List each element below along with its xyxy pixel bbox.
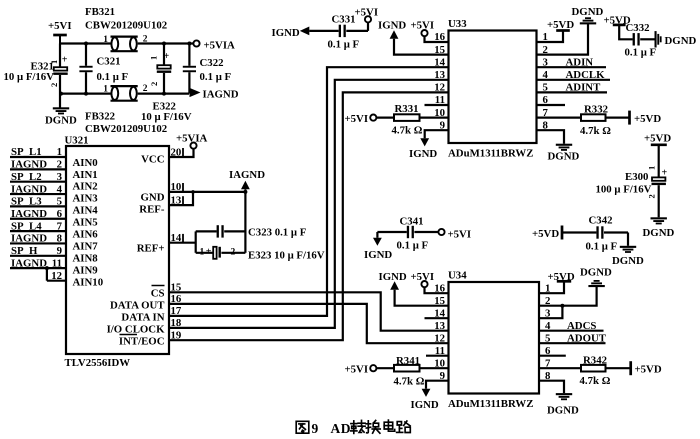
wire C321 leads [85,44,87,94]
svg-text:IGND: IGND [411,399,439,411]
pin 15 CS wire: U321.15 to U34.13 [169,282,449,331]
svg-text:CBW201209U102: CBW201209U102 [85,123,167,135]
ferrite bead FB322 [85,84,167,135]
svg-text:REF+: REF+ [137,243,165,255]
svg-text:AIN2: AIN2 [73,181,98,193]
node SP_H pin 9 of U321 [10,245,66,257]
op IC U34 ADuM1311BRWZ box [448,270,539,411]
svg-text:AD: AD [331,421,352,436]
power +5VD at U33 pin 1 [537,19,575,42]
node ADOUT U34 pin 5 [539,332,607,344]
svg-text:+5VI: +5VI [345,364,369,376]
node IAGND pin 11 of U321 [10,257,66,269]
svg-text:CS: CS [151,288,165,300]
svg-text:ADINT: ADINT [566,82,602,94]
svg-text:+5VD: +5VD [634,113,661,125]
wire top rail [60,42,194,44]
pin label CS (active low) of U321 [151,286,165,300]
svg-text:DGND: DGND [612,255,644,267]
pin label REF+ of U321 [137,243,165,255]
svg-text:IAGND: IAGND [11,159,47,171]
pin label DATA IN of U321 [121,312,164,324]
svg-text:DGND: DGND [643,227,675,239]
node IAGND pin 6 of U321 [10,208,66,220]
pin label DATA OUT of U321 [110,300,165,312]
resistor R332 4.7k [537,103,662,137]
net IGND arrow at U34 pin 9 [411,381,449,411]
svg-text:12: 12 [434,82,445,94]
node ADIN U33 pin 3 [537,56,607,68]
svg-text:FB322: FB322 [85,111,115,123]
node pin 12 of U321 [47,270,66,282]
svg-text:IAGND: IAGND [203,89,239,101]
op IC U33 ADuM1311BRWZ box [448,18,537,160]
svg-text:0.1 μ F: 0.1 μ F [397,240,429,252]
ground DGND bottom-left [45,94,77,127]
svg-text:IAGND: IAGND [11,183,47,195]
svg-text:0.1 μ F: 0.1 μ F [200,71,232,83]
svg-text:1: 1 [200,248,205,258]
svg-text:IAGND: IAGND [11,257,47,269]
pin numbers right side U34 [545,282,551,382]
pin label GND of U321 [141,192,165,204]
svg-text:+: + [206,247,212,258]
svg-text:+5VD: +5VD [547,19,574,31]
svg-text:9: 9 [312,421,319,436]
svg-text:VCC: VCC [141,154,164,166]
capacitor E321 (electrolytic 10uF/16V) [4,55,68,88]
svg-text:4: 4 [57,183,63,195]
svg-text:U33: U33 [448,18,467,30]
svg-text:4.7k Ω: 4.7k Ω [580,375,611,387]
svg-text:C331: C331 [332,14,356,26]
capacitor C331 0.1uF with IGND arrow and +5VI terminal [272,7,379,51]
op IC U321 TLV2556IDW box [65,135,170,370]
svg-text:11: 11 [52,257,62,269]
ground DGND above U33 pin 2 [537,6,604,55]
svg-text:IGND: IGND [409,148,437,160]
svg-text:+5VI: +5VI [448,229,472,241]
svg-text:2: 2 [143,84,148,94]
svg-text:2: 2 [149,82,159,86]
caption figure label 图9 AD转换电路 [296,420,410,436]
net IGND arrow at U33 pin 15 [378,20,449,55]
svg-text:IGND: IGND [272,27,300,39]
svg-text:C341: C341 [400,216,424,228]
svg-text:ADCLK: ADCLK [566,69,606,81]
pin 6 stub U33 [537,104,566,106]
pin 14 wire of U321 [169,231,196,252]
svg-text:ADCS: ADCS [567,320,596,332]
svg-text:GND: GND [141,192,165,204]
capacitor E323 10uF/16V electrolytic [196,247,325,262]
power symbol +5VI top-left [48,20,72,44]
wire E322 leads [163,44,165,94]
svg-text:7: 7 [57,220,63,232]
svg-text:1: 1 [149,56,159,60]
net IGND arrow at U34 pin 15 [379,271,449,306]
svg-text:AIN1: AIN1 [73,169,98,181]
capacitor C323 0.1uF [196,225,307,238]
svg-text:2: 2 [49,83,59,87]
svg-text:+5VD: +5VD [548,271,575,283]
svg-text:10 μ F/16V: 10 μ F/16V [141,111,192,123]
svg-text:DGND: DGND [580,267,612,279]
svg-text:2: 2 [143,35,148,45]
svg-text:REF-: REF- [139,204,165,216]
node junction IAGND pin11 to pin12 [45,266,49,281]
pin 19 INT/EOC wire: U321.19 to U33.12 [169,92,449,341]
ground DGND below U33 pin 8 [537,130,580,162]
svg-text:IGND: IGND [364,249,392,261]
node IAGND pin 4 of U321 [10,183,66,195]
svg-text:AIN4: AIN4 [73,205,99,217]
node junction dots bottom rail [59,92,166,96]
svg-text:12: 12 [434,332,445,344]
capacitor C332 0.1uF with +5VD and rotated DGND [604,15,697,59]
svg-text:AIN10: AIN10 [73,276,104,288]
svg-text:CBW201209U102: CBW201209U102 [85,20,167,32]
svg-text:SP_L1: SP_L1 [11,146,42,158]
node ADCS U34 pin 4 [539,320,604,332]
pin label VCC of U321 [141,154,164,166]
svg-text:+5VI: +5VI [411,20,435,32]
pin 16 DATA OUT wire: U321.16 to U34.12 [169,293,449,343]
svg-text:3: 3 [57,171,63,183]
svg-text:U321: U321 [65,135,89,147]
svg-text:0.1 μ F: 0.1 μ F [328,39,360,51]
svg-text:+5VD: +5VD [635,364,662,376]
svg-text:DGND: DGND [548,151,580,163]
svg-text:100 μ F/16V: 100 μ F/16V [596,184,652,196]
svg-text:13: 13 [434,69,445,81]
svg-text:DGND: DGND [45,115,77,127]
svg-text:4.7k Ω: 4.7k Ω [392,125,423,137]
terminal +5VI at U34 pin 16 [411,271,449,293]
capacitor C321 0.1uF [79,56,128,83]
terminal +5VIA [193,40,235,52]
svg-text:5: 5 [57,196,62,208]
svg-text:AIN3: AIN3 [73,193,99,205]
svg-text:DGND: DGND [665,35,697,47]
svg-text:I/O CLOCK: I/O CLOCK [107,324,165,336]
svg-text:ADOUT: ADOUT [567,332,607,344]
svg-text:AIN7: AIN7 [73,240,99,252]
svg-text:0.1 μ F: 0.1 μ F [586,241,618,253]
pin label REF- of U321 [139,204,165,216]
svg-text:IGND: IGND [378,20,406,32]
svg-text:ADIN: ADIN [566,56,594,68]
svg-text:+: + [62,55,68,66]
svg-text:DATA IN: DATA IN [121,312,164,324]
svg-text:ADuM1311BRWZ: ADuM1311BRWZ [448,148,533,160]
svg-text:DGND: DGND [547,405,579,417]
wire REF decoupling vertical [244,192,246,253]
svg-text:C323 0.1 μ F: C323 0.1 μ F [248,227,307,239]
svg-text:1: 1 [103,35,108,45]
capacitor C341 0.1uF with IGND arrow and +5VI terminal [364,216,471,262]
svg-text:0.1 μ F: 0.1 μ F [625,47,657,59]
svg-text:U34: U34 [448,270,467,282]
svg-text:+5VI: +5VI [355,7,379,19]
svg-text:+5VD: +5VD [644,133,671,145]
svg-text:+: + [662,168,668,179]
svg-text:4.7k Ω: 4.7k Ω [394,376,425,388]
svg-text:AIN6: AIN6 [73,229,99,241]
svg-text:AIN0: AIN0 [73,157,98,169]
node SP_L1 pin 1 of U321 [10,146,66,158]
pin 6 stub U34 [539,355,566,357]
ferrite bead FB321 [85,6,167,51]
terminal +5VIA at pin 20 [176,133,208,149]
svg-text:C332: C332 [626,22,650,34]
node SP_L4 pin 7 of U321 [10,220,66,232]
pin label INT/EOC of U321 [119,335,165,348]
pin 10 wire of U321 [169,181,245,193]
svg-text:+5VI: +5VI [345,113,369,125]
svg-text:TLV2556IDW: TLV2556IDW [65,357,131,369]
terminal +5VI at U33 pin 16 [411,20,449,43]
svg-text:R332: R332 [584,103,608,115]
capacitor E300 100uF/16V electrolytic with +5VD and DGND [596,133,675,240]
ground DGND below U34 pin 8 [539,381,579,417]
node SP_L3 pin 5 of U321 [10,196,66,208]
svg-text:SP_L4: SP_L4 [11,220,42,232]
pin 13 wire of U321 joins pin 10 [169,190,195,206]
svg-text:+5VI: +5VI [411,271,435,283]
svg-text:IAGND: IAGND [11,233,47,245]
pin 11 stub U33 [425,104,449,106]
svg-text:+5VIA: +5VIA [204,40,236,52]
svg-text:C342: C342 [589,215,613,227]
svg-text:6: 6 [57,208,63,220]
node ADINT U33 pin 5 [537,82,608,94]
svg-text:AIN5: AIN5 [73,217,98,229]
svg-text:9: 9 [57,245,63,257]
svg-text:C321: C321 [97,56,121,68]
net IAGND arrow right [190,88,239,101]
svg-text:R331: R331 [395,103,419,115]
svg-text:2: 2 [231,248,236,258]
pin 20 wire to +5VIA terminal [169,146,194,158]
node IAGND pin 2 of U321 [10,159,66,171]
resistor R341 4.7k [345,355,449,388]
svg-text:IAGND: IAGND [229,169,265,181]
svg-text:SP_H: SP_H [11,245,38,257]
svg-text:8: 8 [57,233,63,245]
pin numbers left side U34 [434,282,445,382]
capacitor C342 0.1uF with +5VD and DGND [532,215,644,268]
svg-text:14: 14 [434,56,445,68]
svg-text:1: 1 [103,85,108,95]
svg-text:SP_L3: SP_L3 [11,196,42,208]
svg-text:AIN8: AIN8 [73,252,99,264]
wire bottom rail [60,92,189,94]
svg-text:+5VD: +5VD [532,228,559,240]
svg-text:+5VI: +5VI [48,20,72,32]
pin label I/O CLOCK of U321 [107,324,165,336]
node SP_L2 pin 3 of U321 [10,171,66,183]
svg-text:ADuM1311BRWZ: ADuM1311BRWZ [448,398,533,410]
svg-text:R342: R342 [583,355,607,367]
svg-text:2: 2 [57,159,62,171]
pin 11 stub U34 [426,355,449,357]
svg-text:AIN9: AIN9 [73,264,99,276]
svg-text:INT/EOC: INT/EOC [119,336,165,348]
capacitor E322 (electrolytic 10uF/16V) [141,51,192,123]
svg-text:+5VIA: +5VIA [176,133,208,145]
net IAGND arrow at REF [229,169,265,194]
svg-text:13: 13 [434,320,445,332]
resistor R331 4.7k [345,103,449,137]
svg-text:C322: C322 [200,57,224,69]
pin 18 I/O CLOCK wire: U321.18 to U33.13 [169,80,449,329]
node ADCLK U33 pin 4 [537,69,611,81]
power +5VD at U34 pin 1 [539,271,575,293]
ground DGND above U34 pins 2,3 [539,267,612,319]
svg-text:IGND: IGND [379,271,407,283]
node IAGND pin 8 of U321 [10,233,66,245]
pin 14 stub U34 [425,317,449,319]
svg-text:DATA OUT: DATA OUT [110,300,165,312]
pin numbers left side U33 [434,31,445,131]
svg-text:R341: R341 [396,355,420,367]
svg-text:4.7k Ω: 4.7k Ω [580,125,611,137]
pin 17 DATA IN wire: U321.17 to U33.14 [169,67,449,317]
svg-text:0.1 μ F: 0.1 μ F [97,71,129,83]
svg-text:FB321: FB321 [85,6,115,18]
svg-text:DGND: DGND [572,6,604,18]
svg-text:10 μ F/16V: 10 μ F/16V [4,71,55,83]
wire E321 leads [59,44,61,94]
net IGND arrow at U33 pin 9 [409,130,449,160]
svg-text:E300: E300 [625,171,648,183]
svg-text:1: 1 [647,166,657,170]
svg-text:12: 12 [51,270,62,282]
wire C322 leads [188,44,190,94]
pin numbers right side U33 [543,31,549,131]
resistor R342 4.7k [539,355,662,388]
pin labels AIN0-AIN10 of U321 [73,157,104,288]
svg-text:2: 2 [647,194,657,198]
svg-text:E323 10 μ F/16V: E323 10 μ F/16V [248,250,325,262]
svg-text:IAGND: IAGND [11,208,47,220]
node junction dots top rail [84,42,191,46]
svg-text:SP_L2: SP_L2 [11,171,42,183]
svg-text:1: 1 [57,146,62,158]
capacitor C322 0.1uF [183,57,232,83]
